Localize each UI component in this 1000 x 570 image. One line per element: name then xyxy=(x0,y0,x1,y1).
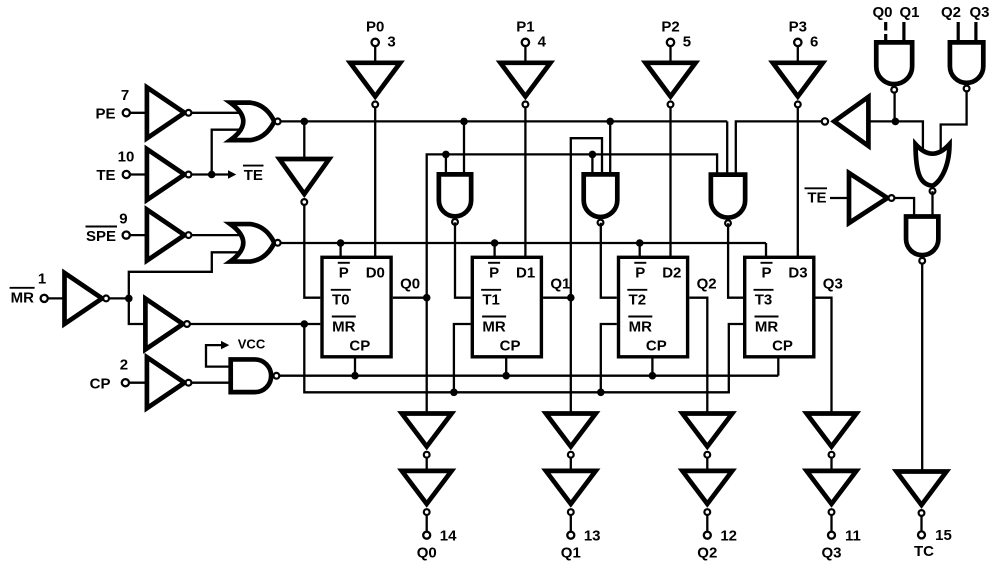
svg-text:Q1: Q1 xyxy=(899,4,919,21)
label VCC xyxy=(238,336,266,351)
svg-text:Q0: Q0 xyxy=(400,275,420,292)
wire SPE buffer to OR2 xyxy=(192,234,240,236)
svg-text:Q3: Q3 xyxy=(821,544,841,561)
nand-gate Q2Q3 xyxy=(950,42,983,91)
input pin P0 (pin 3) xyxy=(366,19,396,63)
output pin Q3 (pin 11) xyxy=(821,515,860,561)
wire enable to T0 inverter xyxy=(303,121,305,159)
node MR rail FF2 xyxy=(597,389,605,397)
input pin P2 (pin 5) xyxy=(661,19,691,63)
svg-text:MR: MR xyxy=(755,319,778,336)
node MR rail FF1 xyxy=(450,389,458,397)
wire carry inverter output xyxy=(736,121,822,176)
svg-text:2: 2 xyxy=(120,357,128,374)
wire MR node to MR2 buffer xyxy=(129,298,146,324)
label Q3 output xyxy=(823,275,843,292)
wire Q0 stub (dashed) xyxy=(884,22,887,41)
buffer TE xyxy=(147,149,192,200)
inverter TC xyxy=(897,472,947,516)
wire P0 to D input xyxy=(374,107,376,259)
node Q0 xyxy=(423,294,431,302)
node P rail FF2 xyxy=(636,239,644,247)
svg-text:Q0: Q0 xyxy=(417,544,437,561)
inverter P3 xyxy=(773,63,823,108)
flip-flop FF3 xyxy=(745,257,814,357)
wire NAND2 to FF2 T input xyxy=(601,223,617,298)
svg-text:10: 10 xyxy=(118,149,135,166)
svg-text:TE: TE xyxy=(807,189,826,206)
svg-text:PE: PE xyxy=(95,105,115,122)
wire Q3 interstage xyxy=(830,458,832,471)
svg-text:MR: MR xyxy=(482,319,505,336)
input pin P3 (pin 6) xyxy=(789,19,819,63)
svg-text:3: 3 xyxy=(387,34,395,51)
node enable to NAND2 xyxy=(606,118,614,126)
wire Q0 stem NAND1 xyxy=(445,154,447,176)
wire MR buffer to node xyxy=(109,297,129,299)
svg-text:12: 12 xyxy=(720,528,737,545)
nand-gate Q0Q1 xyxy=(876,42,912,92)
svg-text:13: 13 xyxy=(584,528,601,545)
wire CP rail xyxy=(278,359,778,376)
node enable to T0 inverter xyxy=(301,118,309,126)
wire Q0Q1 NAND out xyxy=(893,92,895,122)
wire P stem FF1 xyxy=(493,243,495,259)
wire Q2 out xyxy=(689,298,707,414)
nand-gate CP driver xyxy=(231,359,280,392)
wire P3 to D input xyxy=(797,107,799,259)
svg-text:Q3: Q3 xyxy=(969,4,989,21)
wire CP stem FF1 xyxy=(505,359,507,376)
flip-flop FF2 xyxy=(619,257,688,357)
output pin TC (pin 15) xyxy=(914,516,952,560)
wire enable rail drop to NAND3 xyxy=(726,121,728,176)
svg-text:11: 11 xyxy=(845,528,861,545)
flip-flop FF0 xyxy=(322,257,391,357)
svg-text:TE: TE xyxy=(96,167,115,184)
inverter Q3 b xyxy=(807,471,857,515)
wire Q1 out xyxy=(543,297,571,299)
wire carry inverter input xyxy=(868,120,895,122)
wire P1 to D input xyxy=(524,107,526,259)
and-gate TC xyxy=(906,217,938,264)
svg-text:7: 7 xyxy=(121,87,129,104)
svg-text:P0: P0 xyxy=(366,19,384,36)
inverter P0 xyxy=(350,63,400,108)
svg-text:Q2: Q2 xyxy=(697,544,717,561)
input pin CP (pin 2) xyxy=(90,357,147,393)
inverter Q0 b xyxy=(402,471,452,515)
svg-text:MR: MR xyxy=(629,319,652,336)
or-gate OR1 (PE OR TE) xyxy=(230,103,280,140)
node Q0 rail NAND2 xyxy=(589,151,597,159)
buffer TE right xyxy=(849,173,894,223)
inverter T0 xyxy=(279,159,329,205)
svg-text:T1: T1 xyxy=(482,292,500,309)
inverter Q1 b xyxy=(546,471,596,515)
wire node to OR right input xyxy=(895,121,923,151)
wire AND to TC inverter xyxy=(921,264,923,472)
svg-text:Q2: Q2 xyxy=(697,275,717,292)
wire Q1 stub xyxy=(902,22,905,41)
input pin P1 (pin 4) xyxy=(516,19,546,63)
inverter Q1 a xyxy=(546,414,596,458)
wire TE label to buffer xyxy=(830,197,849,199)
inverter P2 xyxy=(646,63,696,108)
node TE xyxy=(208,171,216,179)
node CP FF2 xyxy=(649,372,657,380)
wire Q2 stub xyxy=(957,22,960,41)
svg-text:Q3: Q3 xyxy=(823,275,843,292)
svg-text:Q1: Q1 xyxy=(550,275,570,292)
svg-text:CP: CP xyxy=(772,337,793,354)
svg-text:P: P xyxy=(761,264,771,281)
svg-text:P3: P3 xyxy=(789,19,807,36)
output pin Q0 (pin 14) xyxy=(417,515,457,561)
wire Q0 interstage xyxy=(426,458,428,471)
svg-text:9: 9 xyxy=(119,211,127,228)
svg-text:TC: TC xyxy=(914,543,934,560)
nand-gate T3 xyxy=(711,175,745,226)
wire T0 inverter to FF0 T input xyxy=(304,205,320,298)
wire Q0 stem NAND2 xyxy=(591,154,593,176)
wire MR rail xyxy=(304,324,743,392)
svg-text:T0: T0 xyxy=(332,292,350,309)
node CP FF1 xyxy=(502,372,510,380)
input pin MR (pin 1) xyxy=(10,270,65,306)
wire MR riser FF1 xyxy=(454,324,471,392)
svg-text:CP: CP xyxy=(500,337,521,354)
label Q0 stub xyxy=(872,4,892,21)
node MR xyxy=(125,295,133,303)
buffer SPE xyxy=(147,210,192,261)
svg-text:6: 6 xyxy=(810,34,818,51)
svg-text:P2: P2 xyxy=(661,19,679,36)
wire PE buffer to OR1 xyxy=(192,112,240,114)
wire enable rail xyxy=(281,120,727,122)
input pin PE (pin 7) xyxy=(95,87,146,122)
buffer MR2 xyxy=(145,299,190,350)
wire Q1 interstage xyxy=(570,458,572,471)
buffer CP xyxy=(147,357,192,408)
svg-text:5: 5 xyxy=(683,34,691,51)
wire P stem FF0 xyxy=(339,243,341,259)
or-gate TC xyxy=(916,144,950,194)
inverter P1 xyxy=(500,63,550,108)
node MR drop xyxy=(301,320,309,328)
svg-text:4: 4 xyxy=(538,34,547,51)
wire NAND3 to FF3 T input xyxy=(728,223,743,298)
node CP FF0 xyxy=(351,372,359,380)
nand-gate T1 xyxy=(439,174,471,224)
svg-text:P: P xyxy=(635,264,645,281)
inverter Q3 a xyxy=(807,414,857,458)
node P rail FF1 xyxy=(491,239,499,247)
label Q2 stub xyxy=(941,4,961,21)
wire Q3 out xyxy=(816,298,832,414)
node P rail FF0 xyxy=(337,239,345,247)
or-gate OR2 (SPE OR MR) xyxy=(230,224,280,261)
svg-text:15: 15 xyxy=(935,527,952,544)
inverter Q0 a xyxy=(402,414,452,458)
wire MR2 to FF0 MR input xyxy=(190,323,320,325)
svg-text:T2: T2 xyxy=(629,292,647,309)
inverter carry (left-pointing) xyxy=(822,97,869,146)
svg-text:CP: CP xyxy=(90,375,111,392)
svg-text:T3: T3 xyxy=(755,292,773,309)
label Q1 output xyxy=(550,275,570,292)
wire CP buffer to NAND xyxy=(192,382,231,384)
wire TE node to OR1 lower input xyxy=(212,130,239,175)
svg-text:Q1: Q1 xyxy=(561,544,581,561)
label Q2 output xyxy=(697,275,717,292)
wire P stem FF2 xyxy=(639,243,641,259)
svg-text:CP: CP xyxy=(349,337,370,354)
wire CP stem FF0 xyxy=(354,359,356,376)
svg-text:D0: D0 xyxy=(366,264,385,281)
flip-flop FF1 xyxy=(472,257,541,357)
label TE right xyxy=(805,188,828,206)
arrow TE internal label xyxy=(212,166,264,184)
wire Q2Q3 NAND out xyxy=(941,92,967,151)
node enable to NAND1 xyxy=(460,118,468,126)
buffer MR xyxy=(65,273,110,324)
output pin Q2 (pin 12) xyxy=(697,515,737,561)
wire Q1 drop xyxy=(570,298,572,414)
svg-text:Q2: Q2 xyxy=(941,4,961,21)
wire MR riser FF2 xyxy=(601,324,617,392)
input pin TE (pin 10) xyxy=(96,149,147,185)
node Q0 rail NAND1 xyxy=(442,151,450,159)
nand-gate T2 xyxy=(584,174,618,225)
inverter Q2 a xyxy=(682,414,732,458)
svg-text:D1: D1 xyxy=(516,264,535,281)
wire P stem FF3 xyxy=(765,243,767,259)
svg-text:P: P xyxy=(339,264,349,281)
buffer PE xyxy=(147,87,192,138)
label Q0 output xyxy=(400,275,420,292)
wire VCC tie with arrow xyxy=(206,341,231,367)
svg-text:MR: MR xyxy=(332,319,355,336)
wire P2 to D input xyxy=(669,107,671,259)
svg-text:CP: CP xyxy=(646,337,667,354)
label Q1 stub xyxy=(899,4,919,21)
wire NAND1 to FF1 T input xyxy=(455,222,471,297)
svg-text:SPE: SPE xyxy=(86,228,116,245)
svg-text:P: P xyxy=(489,264,499,281)
svg-text:Q0: Q0 xyxy=(872,4,892,21)
wire Q1 staple to NAND2 xyxy=(571,138,602,298)
input pin SPE (pin 9) xyxy=(86,211,147,246)
wire TE buffer to AND xyxy=(894,198,914,217)
wire Q0 drop xyxy=(426,298,428,414)
wire Q2 interstage xyxy=(706,458,708,471)
wire enable stem NAND1 xyxy=(463,121,465,176)
wire CP stem FF2 xyxy=(651,359,653,376)
label Q3 stub xyxy=(969,4,989,21)
node Q1 xyxy=(567,294,575,302)
svg-text:MR: MR xyxy=(11,289,34,306)
wire MR node to OR2 lower input xyxy=(129,252,239,298)
svg-text:D2: D2 xyxy=(662,264,681,281)
svg-text:P1: P1 xyxy=(516,19,534,36)
svg-text:TE: TE xyxy=(244,167,263,184)
svg-text:VCC: VCC xyxy=(238,336,266,351)
svg-text:14: 14 xyxy=(440,528,457,545)
inverter Q2 b xyxy=(682,471,732,515)
wire Q0 rail xyxy=(427,154,717,297)
wire enable stem NAND2 xyxy=(609,121,611,176)
output pin Q1 (pin 13) xyxy=(561,515,601,561)
wire Q3 stub xyxy=(974,22,977,41)
wire P-bar rail xyxy=(281,242,766,244)
svg-text:1: 1 xyxy=(38,270,46,287)
wire OR to AND xyxy=(931,191,933,216)
wire TE buffer to node xyxy=(192,173,212,175)
svg-text:D3: D3 xyxy=(788,264,807,281)
wire Q0 out xyxy=(393,297,427,299)
node Q0Q1 out xyxy=(892,118,900,126)
